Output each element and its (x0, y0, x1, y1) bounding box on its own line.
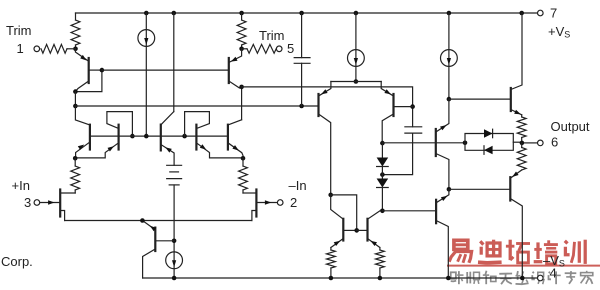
label pin 4 (550, 266, 557, 281)
label Output (551, 119, 590, 134)
label pin 6 (551, 135, 558, 150)
transistor Q15 driver (436, 99, 449, 189)
svg-text:6: 6 (551, 135, 558, 150)
transistor Q7 cascode center (161, 112, 174, 166)
current source I2 (348, 13, 365, 66)
resistor R7 (517, 115, 526, 143)
node top rail junction (299, 11, 304, 16)
label pin 7 (550, 6, 557, 21)
node clamp left (463, 141, 468, 146)
transistor Q1 (75, 49, 102, 92)
node R2/trim junction (239, 47, 244, 52)
svg-text:4: 4 (550, 266, 557, 281)
pin 3 terminal (34, 200, 40, 206)
resistor R5 (327, 248, 336, 279)
svg-text:Corp.: Corp. (1, 254, 33, 269)
resistor R3 (71, 158, 80, 193)
node C1 tap (299, 104, 304, 109)
current source I1 (138, 13, 155, 46)
wire mirror base feed (331, 195, 357, 231)
transistor Q12 (357, 211, 380, 248)
node top rail junction (447, 11, 452, 16)
svg-text:2: 2 (290, 195, 297, 210)
svg-text:–In: –In (289, 178, 307, 193)
node top rail junction (519, 11, 524, 16)
node tail connection (140, 218, 145, 223)
label Corp (1, 254, 33, 269)
resistor R1 (71, 13, 80, 49)
wire Q10 collector to driver (382, 142, 465, 144)
wire battery to I4 (173, 185, 175, 252)
wire bias rail (173, 13, 175, 112)
wire I3 output (448, 67, 450, 100)
svg-text:+In: +In (12, 178, 30, 193)
transistor Q6 -input (243, 190, 276, 221)
pin 2 terminal (277, 200, 283, 206)
diode D1 (377, 143, 389, 166)
label pin 5 (287, 41, 294, 56)
resistor R4 (239, 158, 248, 193)
wire top +Vs rail (76, 12, 538, 14)
wire clamp to output (513, 141, 522, 143)
node top rail junction (354, 11, 359, 16)
wire I4 to rail (173, 269, 175, 278)
wire W2 Q2 collector to C2 (242, 87, 413, 107)
diode D2 (377, 167, 389, 211)
node left emitter join (73, 156, 78, 161)
wire Q2 collector down (241, 87, 243, 120)
node R1/trim junction (73, 47, 78, 52)
label +In (12, 178, 30, 193)
capacitor C1 (294, 13, 310, 106)
wire W1 first stage output (75, 105, 318, 107)
node I1 feed (144, 134, 149, 139)
resistor R8 (517, 143, 526, 170)
battery bias symbol (167, 165, 182, 185)
wire output stub (524, 142, 537, 144)
node Q8 base (172, 239, 177, 244)
transistor Q11 (331, 195, 357, 248)
wire Q16 base (449, 98, 511, 100)
node mirror bases (354, 228, 359, 233)
diode D3 top clamp (465, 129, 513, 150)
node Q3b collector tie (130, 134, 135, 139)
resistor trim pot left (41, 44, 76, 53)
node Q17 base feed (447, 187, 452, 192)
svg-text:7: 7 (550, 6, 557, 21)
current source I3 (441, 13, 458, 66)
wire Q1-Q2 base line (102, 69, 229, 71)
label pin 3 (24, 195, 31, 210)
svg-text:5: 5 (287, 41, 294, 56)
svg-text:Output: Output (551, 119, 590, 134)
svg-text:3: 3 (24, 195, 31, 210)
transistor Q16 output npn (511, 13, 522, 115)
transistor Q3b cascode (75, 112, 132, 158)
node Q1 collector tie (73, 89, 78, 94)
label +Vs (548, 24, 570, 40)
wire Q1 base-collector tie (75, 70, 102, 92)
node D1 anode (380, 141, 385, 146)
pin 1 terminal (34, 46, 40, 52)
node bottom rail junction (172, 276, 177, 281)
wire Q1 collector down (74, 92, 76, 106)
node bottom rail junction (378, 276, 383, 281)
wire cascode base line (90, 135, 228, 137)
node top rail junction (144, 11, 149, 16)
node Q1 base tie (100, 68, 105, 73)
node T1 collector (73, 104, 78, 109)
node bottom rail junction (446, 276, 451, 281)
pin 4 terminal (538, 275, 544, 281)
label -In (289, 178, 307, 193)
svg-text:+VS: +VS (548, 24, 570, 40)
wire I1 output (145, 47, 147, 137)
node Q2 collector (239, 85, 244, 90)
label Trim left (6, 23, 32, 38)
transistor Q4a cascode (228, 120, 243, 159)
node I2 feed (354, 79, 359, 84)
node Q4b collector tie (182, 134, 187, 139)
node Q9 collector join (328, 193, 333, 198)
wire second stage emitter rail (331, 81, 381, 83)
transistor Q3a cascode (75, 106, 90, 158)
transistor Q14 sink (436, 189, 449, 278)
node bottom rail junction (520, 276, 525, 281)
svg-text:Trim: Trim (259, 28, 285, 43)
resistor trim pot right (242, 44, 277, 53)
diode D4 bottom clamp (484, 146, 493, 155)
capacitor C2 (382, 107, 421, 175)
node right emitter join (241, 156, 246, 161)
svg-text:Trim: Trim (6, 23, 32, 38)
resistor R2 (237, 13, 246, 49)
label Trim right (259, 28, 285, 43)
transistor Q10 (381, 82, 412, 144)
current source I4 (166, 252, 183, 269)
label -Vs (543, 253, 565, 269)
svg-text:1: 1 (17, 41, 24, 56)
transistor Q2 (229, 49, 242, 88)
node Q16 base feed (447, 97, 452, 102)
transistor Q9 (319, 82, 331, 195)
node output (520, 141, 525, 146)
node top rail junction (239, 11, 244, 16)
node C2 top (410, 104, 415, 109)
watermark red text + gray text (448, 240, 600, 285)
transistor Q8 tail (142, 221, 174, 279)
wire input common rail (65, 220, 252, 222)
node bottom rail junction (329, 276, 334, 281)
wire I2 output (355, 67, 357, 82)
label pin 2 (290, 195, 297, 210)
wire bottom -Vs rail (143, 277, 538, 279)
transistor Q17 output pnp (449, 170, 522, 278)
transistor Q5 +input (40, 190, 75, 221)
pin 6 terminal (538, 140, 544, 146)
node D1-D2 junction (380, 172, 385, 177)
wire mirror output (382, 210, 436, 212)
label pin 1 (17, 41, 24, 56)
node top rail junction (172, 11, 177, 16)
node D2 cathode (380, 209, 385, 214)
resistor R6 (376, 248, 385, 279)
transistor Q4b cascode (185, 112, 243, 158)
pin 5 terminal (276, 46, 282, 52)
pin 7 terminal (538, 10, 544, 16)
